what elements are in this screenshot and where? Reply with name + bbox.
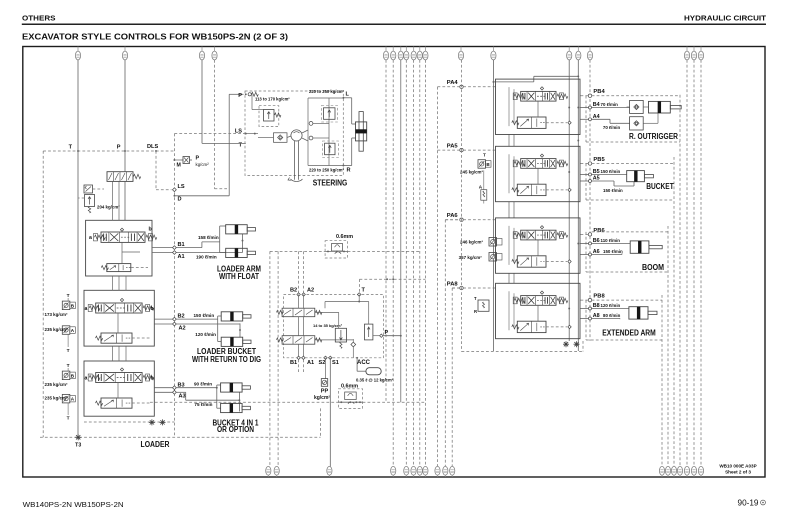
steering orbital unit [291,130,302,141]
accumulator [356,358,358,371]
svg-text:P: P [196,156,200,162]
svg-text:T3: T3 [75,443,81,449]
wire D to steering P [174,195,229,197]
bucket internals [537,168,539,184]
wire pilot valve feeds [298,295,300,309]
wire loader inlet galleries [112,181,114,220]
svg-text:PB8: PB8 [593,294,605,300]
wire A8 [581,318,589,320]
steering relief valve [259,106,279,127]
wire bucket 4in1 internals [117,383,119,399]
wire solenoid to check [315,339,354,341]
loader bucket spool [96,303,142,313]
loader valve enclosure [43,150,174,152]
extarm cushion valve [478,300,489,311]
svg-text:b: b [151,306,154,312]
gauge M [183,157,190,164]
wire right edge risers to sheet 3 [661,295,663,466]
svg-text:173 kg/cm²: 173 kg/cm² [45,312,69,317]
steering enclosure [245,91,343,176]
svg-text:M: M [177,163,181,169]
wire A1 to loader arm cylinders [152,252,173,254]
node T [77,150,79,152]
bottom hose connectors row [266,466,271,475]
wire solenoid to reducing valve [315,311,339,313]
wire P and T supply drops [77,60,79,151]
svg-text:A1: A1 [307,360,314,366]
pilot relief valve [365,324,373,340]
loader arm section body [86,220,152,276]
wire B3 to 4in1 cylinders [154,387,172,389]
main relief valve 204 [85,195,95,207]
svg-text:PB4: PB4 [593,89,605,95]
svg-text:150 ℓ/min: 150 ℓ/min [603,188,623,193]
svg-text:T: T [67,348,70,354]
port T3 [75,436,81,438]
svg-text:BUCKET: BUCKET [646,182,674,191]
extarm section body [496,283,581,338]
loader bucket section body [84,290,154,346]
svg-text:T: T [67,415,70,421]
svg-text:kg/cm²: kg/cm² [314,395,330,401]
svg-text:EXTENDED ARM: EXTENDED ARM [602,328,656,337]
pilot valve B section3 [62,371,70,380]
loader bucket cylinder 1 [221,312,243,321]
orifice 0.6mm upper [325,241,348,258]
extarm spool [521,296,556,306]
wire pilot manifold T gallery [358,295,360,302]
svg-text:235 kg/cm²: 235 kg/cm² [45,396,69,401]
node T pilot [357,293,361,297]
boom cylinder [630,241,649,253]
wire right bank intersection galleries [508,135,510,147]
svg-text:PP: PP [321,389,329,395]
svg-text:0.6mm: 0.6mm [336,234,353,240]
bucket cylinder [627,171,645,182]
svg-text:a: a [85,375,88,381]
svg-text:A2: A2 [179,325,186,331]
svg-text:357 kg/cm²: 357 kg/cm² [459,255,483,260]
wire steering DLS riser [214,60,216,189]
boom internals [537,240,539,256]
svg-text:DLS: DLS [147,144,158,150]
svg-text:0.35 ℓ @ 12 kg/cm²: 0.35 ℓ @ 12 kg/cm² [356,378,394,383]
svg-text:PA4: PA4 [447,80,459,86]
svg-text:120 ℓ/min: 120 ℓ/min [195,332,216,337]
svg-text:P: P [117,145,121,151]
boom section body [496,218,581,273]
node LS [173,188,177,192]
extarm internals [537,305,539,321]
bucket actuator enclosure [592,163,674,165]
gauge PP [325,358,327,379]
wire B8 [581,308,589,310]
svg-text:HYDRAULIC CIRCUIT: HYDRAULIC CIRCUIT [684,14,767,23]
outrigger spool [521,91,556,101]
wire A3 to 4in1 cylinders [154,391,172,393]
right bank enclosure [461,150,463,351]
wire A2 to bucket cylinders [154,323,172,325]
wire pilot P [373,335,380,337]
orifice 0.6mm lower [338,389,362,409]
border frame [23,47,765,478]
svg-text:LS: LS [178,184,185,190]
svg-text:220 to 250 kg/cm²: 220 to 250 kg/cm² [309,167,345,172]
svg-text:T: T [67,293,70,299]
svg-text:90 ℓ/min: 90 ℓ/min [194,382,212,387]
pilot valve A section3 [62,394,70,403]
bucket 4in1 cylinder 2 [221,403,243,412]
node A2 [173,322,177,326]
svg-text:BOOM: BOOM [642,263,664,272]
svg-text:A2: A2 [307,288,314,294]
svg-text:PA8: PA8 [447,281,459,287]
svg-text:150 ℓ/min: 150 ℓ/min [601,169,621,174]
svg-text:OR OPTION: OR OPTION [217,425,254,434]
svg-text:OTHERS: OTHERS [22,14,56,23]
wire PA riser [461,60,463,150]
outrigger section body [496,79,581,134]
svg-text:T: T [362,288,366,294]
outrigger actuator enclosure [592,95,680,97]
svg-text:a: a [85,306,88,312]
svg-text:90-19: 90-19 [738,498,759,507]
svg-text:L: L [346,92,350,98]
wire T junction above [359,279,361,292]
wire DLS pilot [155,151,157,190]
svg-text:70 ℓ/min: 70 ℓ/min [601,102,619,107]
extarm actuator enclosure [592,299,662,301]
top hose connectors row [77,47,79,52]
svg-text:80 ℓ/min: 80 ℓ/min [603,313,621,318]
wire pilot manifold bottom ports [297,356,300,359]
solenoid valve 1 [282,308,315,317]
svg-text:PB5: PB5 [593,157,605,163]
svg-text:b: b [149,227,152,233]
wire loader bucket internals [117,313,119,333]
svg-text:R: R [474,309,477,314]
boom spool [521,230,556,240]
extarm subvalve [517,321,546,332]
wire pilot line through lower orifice [150,401,338,403]
wire B5 [581,174,589,176]
svg-text:PA5: PA5 [447,143,459,149]
wire right bank rail 578 [577,60,579,351]
svg-text:T: T [483,152,486,157]
node A2 pilot [302,293,305,296]
wire riser 445 [444,220,446,467]
bucket pilot relief [478,160,486,169]
drain marks right bank [563,343,569,345]
svg-text:B2: B2 [290,288,297,294]
wire loader arm internals [121,242,123,263]
svg-text:A1: A1 [178,254,185,260]
svg-text:150 ℓ/min: 150 ℓ/min [194,313,215,318]
svg-text:b: b [151,375,154,381]
svg-text:T: T [67,363,70,369]
wire B4 [581,107,589,109]
boom subvalve [517,256,546,267]
svg-text:235 kg/cm²: 235 kg/cm² [45,382,69,387]
loader bucket regen valve [101,333,132,343]
svg-text:T: T [474,296,477,301]
pilot valve A section2 [62,326,70,335]
wire steering R [308,165,343,167]
node B3 [173,386,177,390]
loader arm cylinder 2 [226,248,248,257]
svg-text:R. OUTRIGGER: R. OUTRIGGER [629,132,678,141]
steering shock valve R [323,141,339,158]
wire B1 to loader arm cylinders [152,247,173,249]
svg-text:14 to 35 kg/cm²: 14 to 35 kg/cm² [313,323,343,328]
svg-text:WB10 000E A03P: WB10 000E A03P [719,464,756,469]
solenoid valve 2 [282,336,315,345]
svg-text:WITH RETURN TO DIG: WITH RETURN TO DIG [192,355,261,364]
svg-text:158 ℓ/min: 158 ℓ/min [198,235,219,240]
wire loader arm cylinder drains [269,251,271,466]
pilot check valve [351,342,356,347]
outrigger lock valve 2 [630,117,644,130]
wire right bank P rail [492,60,494,351]
svg-text:70 ℓ/min: 70 ℓ/min [603,125,621,130]
svg-text:110 ℓ/min: 110 ℓ/min [601,238,621,243]
svg-text:190 ℓ/min: 190 ℓ/min [196,255,217,260]
svg-text:D: D [178,197,182,203]
wire A6 [581,254,589,256]
pressure reducing valve [335,328,346,342]
priority valve [107,172,133,182]
svg-text:A3: A3 [179,394,186,400]
node A1 [173,251,177,255]
steering cylinder [359,112,363,152]
loader arm cylinder 1 [226,225,248,234]
svg-text:R: R [347,167,351,173]
wire A4 [581,118,589,120]
bucket section body [496,146,581,201]
svg-text:a: a [89,235,92,241]
loader arm spool [101,232,145,242]
loader arm float valve [107,264,131,272]
pilot valve B section2 [62,301,70,310]
wire B1 A1 pilot stubs [298,360,300,373]
svg-text:B1: B1 [290,360,297,366]
svg-text:246 kg/cm²: 246 kg/cm² [460,240,484,245]
svg-text:kg/cm²: kg/cm² [196,162,210,167]
svg-text:220 to 250 kg/cm²: 220 to 250 kg/cm² [309,89,345,94]
svg-text:235 kg/cm²: 235 kg/cm² [45,327,69,332]
unloader valve [84,185,93,193]
pilot manifold enclosure [284,295,384,358]
node B2 [173,317,177,321]
bucket 4in1 spool [96,373,142,383]
steering inlet check [248,93,251,96]
svg-text:204 kg/cm²: 204 kg/cm² [97,204,120,209]
node P [124,150,126,152]
svg-text:STEERING: STEERING [313,178,348,187]
wire steering L [308,97,343,99]
wire pilot risers B2 A2 [298,251,300,292]
header rule [22,23,766,25]
svg-text:P: P [385,330,389,336]
bucket 4in1 section body [84,361,154,416]
node A3 [173,390,177,394]
junction dots right rails [568,107,570,109]
svg-text:LOADER: LOADER [141,440,170,449]
node B1 [173,246,177,250]
svg-text:WITH FLOAT: WITH FLOAT [219,272,259,281]
svg-text:P: P [238,93,242,99]
wire S1 drop [329,358,331,467]
wire loader intersection galleries [112,276,114,290]
outrigger cylinder [649,101,671,113]
wire B6 [581,243,589,245]
svg-text:T: T [69,145,73,151]
wire right bank rail 569 [568,60,570,341]
svg-text:PB6: PB6 [593,228,605,234]
bucket subvalve [517,184,546,195]
outrigger subvalve [517,117,546,128]
svg-text:PA6: PA6 [447,213,459,219]
wire B2 to bucket cylinders [154,318,172,320]
svg-text:ACC: ACC [357,360,371,366]
extarm cylinder [629,307,648,319]
drain marks on loader enclosure [149,421,155,423]
boom actuator enclosure [592,231,668,233]
wire riser 438 [437,87,439,467]
wire pilot line through upper orifice [270,250,325,252]
bucket 4in1 subvalve [101,398,132,408]
wire steering T riser [201,60,203,143]
loader bucket cylinder 2 [221,337,243,346]
svg-text:150 ℓ/min: 150 ℓ/min [603,249,623,254]
outrigger internals [537,101,539,117]
svg-text:WB140PS-2N WB150PS-2N: WB140PS-2N WB150PS-2N [23,500,124,509]
node D [173,195,175,197]
wire riser 452 [451,288,453,466]
wire right bank PB rail [589,60,591,341]
steering shock valve L [322,106,338,123]
bucket spool [521,159,556,169]
bucket 4in1 cylinder 1 [221,383,243,392]
node P pilot [380,334,383,337]
node DLS [155,150,157,152]
wire bundle center trunk [385,60,387,402]
steering check valve [274,133,288,143]
svg-text:S1: S1 [332,360,339,366]
wire A5 [581,180,589,182]
node B2 pilot [297,293,300,296]
svg-text:EXCAVATOR STYLE CONTROLS FOR W: EXCAVATOR STYLE CONTROLS FOR WB150PS-2N … [22,32,288,42]
svg-text:Sheet 2 of 3: Sheet 2 of 3 [725,470,751,475]
svg-text:113 to 170 kg/cm²: 113 to 170 kg/cm² [255,97,290,102]
svg-text:S2: S2 [319,360,326,366]
wire right bank feed loop [493,81,533,83]
svg-text:245 kg/cm²: 245 kg/cm² [460,170,484,175]
outrigger lock valve 1 [630,100,644,113]
steering bridge gallery [302,130,308,133]
svg-text:120 ℓ/min: 120 ℓ/min [601,303,621,308]
